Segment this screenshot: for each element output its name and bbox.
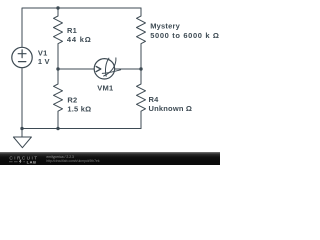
svg-text:LAB: LAB — [27, 159, 37, 164]
svg-text:Mystery: Mystery — [150, 21, 180, 30]
svg-text:5000 to 6000 k Ω: 5000 to 6000 k Ω — [150, 31, 219, 40]
svg-text:44 kΩ: 44 kΩ — [67, 35, 92, 44]
svg-text:R1: R1 — [67, 26, 77, 35]
svg-text:Unknown Ω: Unknown Ω — [149, 104, 193, 113]
svg-text:R2: R2 — [67, 96, 77, 105]
svg-text:VM1: VM1 — [97, 83, 113, 92]
svg-text:1 V: 1 V — [38, 57, 50, 66]
svg-text:1.5 kΩ: 1.5 kΩ — [67, 105, 91, 114]
svg-text:R4: R4 — [149, 95, 160, 104]
